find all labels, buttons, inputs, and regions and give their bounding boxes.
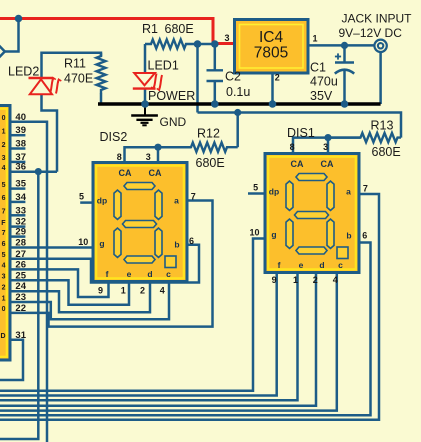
jack input connector <box>374 40 386 52</box>
segment a <box>124 183 155 190</box>
svg-text:g: g <box>271 230 276 240</box>
svg-text:31: 31 <box>15 330 26 341</box>
segment f <box>114 190 121 219</box>
svg-text:CA: CA <box>321 159 334 169</box>
svg-text:40: 40 <box>15 112 26 123</box>
svg-text:9: 9 <box>98 286 103 296</box>
wire pin36 node down to bottom-left exit <box>0 172 38 439</box>
svg-text:36: 36 <box>15 162 26 173</box>
svg-text:3: 3 <box>146 152 151 162</box>
svg-text:34: 34 <box>15 192 26 203</box>
node: R12 tap on +5V line <box>234 109 241 116</box>
svg-text:1: 1 <box>2 129 6 136</box>
svg-text:680E: 680E <box>372 145 401 159</box>
svg-text:POWER: POWER <box>148 89 195 103</box>
svg-text:F: F <box>1 220 6 227</box>
segment c <box>155 228 162 257</box>
svg-text:33: 33 <box>15 205 26 216</box>
svg-text:39: 39 <box>15 125 26 136</box>
svg-text:0.1u: 0.1u <box>226 85 250 99</box>
ground rail (black) <box>98 102 381 106</box>
wire DIS1 dp stub pin5 <box>248 192 265 195</box>
node B (IC4 input) <box>211 40 219 48</box>
svg-text:2: 2 <box>2 142 6 149</box>
svg-text:24: 24 <box>15 281 26 292</box>
svg-text:28: 28 <box>15 238 26 249</box>
wire DIS1 pin2 to bottom bus <box>0 273 316 406</box>
wire DIS1 segment b to bottom bus <box>0 243 371 416</box>
svg-text:6: 6 <box>189 236 194 246</box>
ground symbol GND <box>131 106 158 125</box>
svg-text:dp: dp <box>97 196 107 206</box>
wire R12 right lead riser <box>236 113 239 148</box>
wire IC pin40 long run down to bottom edge <box>12 122 48 442</box>
svg-text:a: a <box>346 187 351 197</box>
segment f <box>286 181 293 210</box>
svg-text:DIS2: DIS2 <box>100 130 128 144</box>
svg-text:29: 29 <box>15 227 26 238</box>
svg-text:f: f <box>106 269 109 279</box>
svg-text:7: 7 <box>191 191 196 201</box>
svg-text:1: 1 <box>2 295 6 302</box>
svg-text:e: e <box>299 260 304 270</box>
svg-text:8: 8 <box>290 142 295 152</box>
node: pin36 junction <box>35 168 42 175</box>
svg-text:680E: 680E <box>196 156 225 170</box>
segment e <box>286 219 293 248</box>
wire R11 bottom to ground rail <box>100 94 103 105</box>
wire IC pin29 stub <box>12 235 26 238</box>
svg-text:35: 35 <box>15 179 26 190</box>
wire IC pin39 stub <box>12 134 26 137</box>
wire C2 bottom plate to ground rail <box>214 81 217 104</box>
svg-text:10: 10 <box>249 228 259 238</box>
svg-text:GND: GND <box>160 115 187 129</box>
svg-text:5: 5 <box>253 183 258 193</box>
svg-text:5: 5 <box>79 191 84 201</box>
svg-text:7: 7 <box>2 230 6 237</box>
segment d <box>296 247 327 254</box>
node: IC4 pin2 on ground rail <box>269 100 277 108</box>
svg-text:3: 3 <box>224 33 229 43</box>
microcontroller IC (partial, left edge) <box>0 106 10 361</box>
svg-text:6: 6 <box>2 241 6 248</box>
resistor R1 <box>145 40 197 49</box>
decimal point <box>165 256 176 268</box>
svg-text:R11: R11 <box>64 57 86 71</box>
svg-text:IC4: IC4 <box>259 29 284 46</box>
svg-text:c: c <box>338 260 343 270</box>
node: DIS1 CA junction <box>324 134 331 141</box>
svg-text:25: 25 <box>15 270 26 281</box>
resistor R11 <box>97 53 106 94</box>
svg-text:5: 5 <box>2 182 6 189</box>
wire DIS1 pin3 riser <box>327 138 330 155</box>
wire DIS2 CA bus: pin8 and pin3 risers to R12 left lead <box>125 147 192 163</box>
svg-text:LED2: LED2 <box>8 65 39 79</box>
svg-text:3: 3 <box>2 155 6 162</box>
svg-text:f: f <box>278 260 281 270</box>
wire IC pin38 stub <box>12 147 26 150</box>
segment b <box>155 190 162 219</box>
off-page arrow (left edge, +5V) <box>0 45 5 59</box>
svg-text:a: a <box>174 196 179 206</box>
wire IC4 pin2 to ground rail <box>271 72 274 104</box>
svg-text:0: 0 <box>2 306 6 313</box>
svg-text:470E: 470E <box>64 72 93 86</box>
svg-text:1: 1 <box>293 275 298 285</box>
segment e <box>114 228 121 257</box>
svg-text:27: 27 <box>15 249 26 260</box>
svg-text:1: 1 <box>121 285 126 295</box>
wire DIS1 segment g to bottom bus <box>0 239 265 391</box>
component value labels <box>8 11 412 170</box>
wire R1 right lead to node A and node B <box>197 43 215 46</box>
capacitor C2 <box>207 70 224 81</box>
svg-text:C1: C1 <box>310 60 326 74</box>
svg-text:38: 38 <box>15 139 26 150</box>
svg-text:4: 4 <box>160 286 165 296</box>
wire C1 top lead <box>343 45 346 61</box>
svg-text:1: 1 <box>312 33 317 43</box>
resistor R13 <box>328 133 401 142</box>
svg-text:7: 7 <box>363 184 368 194</box>
wire IC pin32 stub <box>12 225 26 228</box>
svg-text:LED1: LED1 <box>148 59 179 73</box>
svg-text:0: 0 <box>2 115 6 122</box>
svg-text:DIS1: DIS1 <box>287 126 315 140</box>
wire IC pin24 to DIS2 segment d <box>12 282 151 313</box>
svg-text:JACK INPUT: JACK INPUT <box>342 11 413 25</box>
svg-text:2: 2 <box>2 285 6 292</box>
svg-text:8: 8 <box>117 152 122 162</box>
svg-text:e: e <box>127 269 132 279</box>
wire IC pin28 to DIS2 segment g <box>12 246 94 249</box>
svg-text:d: d <box>319 260 324 270</box>
svg-text:23: 23 <box>15 292 26 303</box>
wire IC pin25 to DIS2 segment e <box>12 280 130 305</box>
wire node B down to C2 top plate <box>214 44 217 70</box>
wire IC pin23 to DIS2 segment c <box>12 282 170 320</box>
svg-text:CA: CA <box>149 168 162 178</box>
+5V red supply wire <box>0 19 235 44</box>
svg-text:4: 4 <box>2 165 6 172</box>
svg-text:CA: CA <box>291 159 304 169</box>
svg-text:3: 3 <box>2 274 6 281</box>
wire DIS2 pin3 riser <box>157 147 160 163</box>
decimal point <box>337 247 348 259</box>
svg-text:2: 2 <box>275 73 280 83</box>
node A (R1/C2 branch) <box>194 40 202 48</box>
svg-text:c: c <box>166 269 171 279</box>
svg-text:dp: dp <box>269 187 279 197</box>
svg-text:C2: C2 <box>225 70 241 84</box>
node: C1 on ground rail <box>341 100 349 108</box>
svg-text:26: 26 <box>15 259 26 270</box>
wire DIS1 pin4 to bottom bus <box>0 273 337 411</box>
svg-text:470u: 470u <box>310 75 338 89</box>
wire LED1 cathode to ground rail <box>144 89 147 104</box>
segment d <box>124 256 155 263</box>
wire IC pin22 to DIS2 segment a <box>12 201 213 327</box>
wire C1 bottom lead to ground rail <box>343 71 346 104</box>
svg-text:22: 22 <box>15 303 26 314</box>
svg-text:R13: R13 <box>371 118 394 132</box>
wire IC pin35 stub <box>12 187 26 190</box>
wire DIS2 dp stub pin5 <box>80 201 93 204</box>
wire LED2 top to R11 top <box>42 53 102 78</box>
svg-text:7805: 7805 <box>254 45 288 62</box>
svg-text:b: b <box>346 231 351 241</box>
display DIS2 (7-segment, common anode) <box>93 163 187 282</box>
svg-text:3: 3 <box>323 142 328 152</box>
resistor R12 <box>158 143 238 152</box>
svg-text:9: 9 <box>272 275 277 285</box>
node: C2 on ground rail <box>211 100 219 108</box>
display DIS1 (7-segment, common anode) <box>265 154 359 273</box>
svg-text:D: D <box>0 333 5 340</box>
wire from +5V node down to off-page arrow <box>5 19 19 52</box>
svg-text:2: 2 <box>313 275 318 285</box>
svg-text:6: 6 <box>2 195 6 202</box>
wire +5V distribution line to R13 right lead <box>198 113 402 138</box>
segment a <box>296 174 327 181</box>
LED LED2 <box>29 78 62 95</box>
svg-text:680E: 680E <box>165 22 194 36</box>
svg-text:R12: R12 <box>197 126 220 140</box>
wire DIS1 pin9 to bottom bus <box>0 273 277 396</box>
wire LED2 cathode down and across to pin36 riser <box>42 95 58 172</box>
svg-text:7: 7 <box>2 209 6 216</box>
svg-text:2: 2 <box>140 286 145 296</box>
pin number labels (IC4 and displays) <box>78 33 368 296</box>
svg-text:5: 5 <box>2 252 6 259</box>
svg-text:b: b <box>174 240 179 250</box>
node: DIS2 CA junction <box>154 144 161 151</box>
node: +5V tap junction <box>15 15 23 23</box>
svg-text:35V: 35V <box>310 89 333 103</box>
svg-text:10: 10 <box>78 237 88 247</box>
svg-text:d: d <box>147 269 152 279</box>
wire IC pin27 to DIS2 segment b <box>12 245 200 283</box>
wire IC4 pin1 to jack <box>308 44 374 47</box>
op-amp/regulator IC4 7805 box <box>235 20 309 74</box>
svg-text:CA: CA <box>119 168 132 178</box>
IC pin numbers <box>15 112 26 341</box>
svg-text:6: 6 <box>362 231 367 241</box>
node: C1/jack junction <box>341 42 348 49</box>
svg-text:4: 4 <box>333 275 338 285</box>
wire jack sleeve down to ground rail <box>379 52 382 104</box>
svg-text:4: 4 <box>2 263 6 270</box>
wire IC pin34 stub <box>12 201 26 204</box>
wire IC pin33 stub <box>12 214 26 217</box>
wire node A down crossing rail to +5V distribution line <box>196 44 199 113</box>
svg-text:R1: R1 <box>142 22 158 36</box>
wire IC pin26 to DIS2 segment f <box>12 269 109 297</box>
segment g <box>295 212 329 219</box>
svg-text:g: g <box>99 239 104 249</box>
LED LED1 (POWER) <box>133 73 162 90</box>
segment g <box>123 221 157 228</box>
wire R1 left lead down to LED1 anode <box>144 44 147 73</box>
segment c <box>327 219 334 248</box>
node: LED1 on ground rail <box>141 100 149 108</box>
wire IC pin31 to bottom-left exit <box>0 340 23 380</box>
wire DIS1 pin1 to bottom bus <box>0 273 298 401</box>
capacitor C1 (electrolytic) <box>335 53 354 73</box>
segment b <box>327 181 334 210</box>
wire DIS1 segment a to bottom bus <box>0 194 379 420</box>
wire IC pin36 to LED2 riser <box>12 171 58 174</box>
svg-text:9V–12V DC: 9V–12V DC <box>339 26 403 40</box>
wire DIS1 CA bus: pin8 and pin3 risers to R13 left lead <box>293 138 361 155</box>
wire IC pin37 stub <box>12 161 26 164</box>
